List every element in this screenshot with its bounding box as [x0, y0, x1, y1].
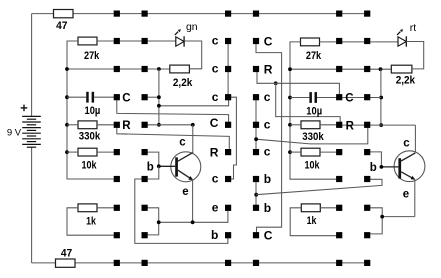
resistor R2 27k (left) [78, 37, 99, 62]
resistor R5 10k (left) [78, 148, 97, 171]
wire b-line left: c2r7 to c3r9 [135, 179, 228, 243]
svg-text:10µ: 10µ [85, 105, 101, 117]
wire bottom rail [32, 262, 371, 264]
svg-text:R: R [346, 120, 355, 132]
svg-text:c: c [179, 136, 186, 148]
svg-text:b: b [264, 201, 271, 215]
svg-text:1k: 1k [86, 215, 96, 227]
svg-text:rt: rt [410, 22, 416, 34]
wire 1k right leads + lower loop [290, 208, 339, 236]
svg-text:27k: 27k [84, 50, 99, 62]
wire R-route right: c4r3 to C c5r4 [257, 69, 339, 97]
junction base Q1 [157, 164, 161, 168]
wire 330k leads [67, 124, 117, 126]
wire c4r7-c4r8 b vertical [255, 179, 257, 208]
svg-text:47: 47 [56, 20, 67, 32]
svg-text:R: R [264, 62, 273, 76]
junction right bus row6 [288, 150, 292, 154]
svg-text:C: C [122, 92, 130, 104]
transistor Q1 (left) [147, 136, 201, 198]
LED D2 rt (red) [397, 22, 416, 47]
wire c-bypass c3r4 to c3r7 [228, 97, 236, 179]
wire 330k right leads [290, 124, 339, 126]
svg-text:27k: 27k [306, 50, 321, 62]
wire b-line right: c4 to c6r7 [256, 179, 382, 194]
svg-text:c: c [264, 90, 271, 104]
wire c6r6 to base Q2 [367, 152, 381, 167]
wire 27k-right-lead / right bus vertical x290 [290, 42, 339, 179]
svg-text:10µ: 10µ [306, 106, 322, 118]
wire R-branch: to 330k row c5r5 [276, 83, 341, 122]
wire collector vertical Q2 [414, 125, 416, 152]
wire top rail [32, 13, 371, 15]
wire row2 right: 27k to LED anode [320, 41, 399, 43]
resistor R11 1k (right) [301, 204, 320, 227]
resistor R3 2,2k (left) [170, 65, 193, 89]
junction left bus row6 [65, 150, 69, 154]
svg-text:c: c [212, 34, 219, 48]
resistor R10 10k (right) [301, 148, 320, 171]
wire node vertical x381 (2.2k junction down) [380, 69, 382, 125]
resistor R6 1k (left) [78, 204, 97, 228]
node letters left of column c3 [210, 34, 219, 243]
svg-text:c: c [212, 62, 219, 76]
svg-text:b: b [147, 161, 154, 173]
junction x159 y124.8 [157, 123, 161, 127]
contact dots column c6 [364, 11, 370, 267]
resistor R8 2,2k (right) [391, 65, 415, 86]
wire e-loop left (c2r8-c2r9) [145, 208, 159, 235]
svg-text:c: c [403, 137, 410, 149]
svg-text:C: C [210, 116, 219, 130]
LED D1 gn (green) [175, 21, 198, 47]
junction x381 row5 [379, 123, 383, 127]
wire 1k leads + lower loop [67, 208, 117, 235]
wire node-R route c1r5 to c3r6 [117, 125, 230, 152]
junction b-line right tap [254, 193, 258, 197]
wire emitter line right [382, 180, 415, 217]
junction x159 row4 [157, 95, 161, 99]
svg-text:e: e [212, 200, 219, 214]
svg-text:330k: 330k [302, 131, 324, 143]
junction c-diag tap [254, 137, 258, 141]
resistor R9 330k (right) [301, 121, 324, 143]
wire c-diag: c4 column to c6r5 [256, 125, 368, 144]
junction base Q2 [380, 165, 384, 169]
wire c3 collector column vertical rows2-4 [227, 41, 229, 97]
svg-text:C: C [345, 93, 353, 105]
svg-text:c: c [264, 117, 271, 131]
wire 10k leads [67, 151, 117, 153]
junction collector tap [191, 123, 195, 127]
wire c2-row4 stub [145, 96, 159, 98]
wire row3 right: bus to 2.2k [290, 68, 391, 70]
svg-text:9 V: 9 V [7, 127, 22, 138]
wire c4 collector column vertical rows4-6 [255, 97, 257, 152]
capacitor C2 10u (right) [290, 92, 339, 117]
junction R-route branch [274, 81, 278, 85]
wire node vertical x159 (2.2k junction down) [158, 69, 160, 125]
wire row3 left: bus to 2.2k [67, 68, 170, 70]
junction 2.2k left lead [157, 67, 161, 71]
junction right bus row3 [288, 67, 292, 71]
svg-text:b: b [264, 172, 271, 186]
transistor Q2 (right) [370, 137, 425, 200]
contact dots column c4 [253, 11, 259, 267]
wire emitter line left [159, 179, 228, 222]
svg-text:1k: 1k [307, 215, 317, 227]
junction x381 row4 [379, 96, 383, 100]
wire LED cathode to 2.2k right lead [184, 41, 202, 69]
svg-text:c: c [264, 145, 271, 159]
wire node y124.8: c2r5 to collector tap [145, 124, 193, 126]
resistor R7 27k (right) [301, 38, 322, 62]
wire row4 right: c5 to x381 [339, 97, 381, 99]
node letters right of column c4 [264, 34, 273, 242]
battery 9V [7, 14, 41, 263]
wire e-loop right (c6r8-c6r9) [367, 208, 382, 234]
svg-text:b: b [370, 162, 377, 174]
svg-text:330k: 330k [79, 131, 101, 143]
junction x159 y105.8 [157, 104, 161, 108]
svg-text:2,2k: 2,2k [173, 77, 192, 89]
svg-text:10k: 10k [82, 159, 97, 171]
contact dots column c2 [142, 11, 148, 267]
svg-text:c: c [212, 172, 219, 186]
svg-text:c: c [212, 90, 219, 104]
junction e-loop right tap [380, 215, 384, 219]
junction right bus row5 [288, 123, 292, 127]
wire row2 left: 27k to LED anode [97, 40, 176, 42]
svg-text:10k: 10k [305, 159, 320, 171]
wire collector vertical Q1 [192, 125, 194, 153]
junction emitter tap [191, 220, 195, 224]
junction left bus row4 [65, 95, 69, 99]
svg-text:R: R [122, 120, 131, 132]
svg-text:C: C [264, 229, 273, 243]
wire C-route right: c4r2 down long vertical to c4r9 [256, 41, 282, 235]
wire base elbow bottom (c2r7) [145, 166, 159, 179]
junction e-loop tap [157, 220, 161, 224]
svg-text:R: R [210, 146, 219, 160]
svg-text:e: e [182, 186, 188, 198]
wire 27k-left-lead / left bus vertical x67 [67, 41, 117, 179]
capacitor C1 10u (left) [67, 92, 117, 117]
contact dots column c1 [114, 11, 120, 267]
wire node-C route c1r4 to c3r5 [117, 97, 229, 125]
svg-text:47: 47 [61, 247, 72, 259]
junction right bus row4 [288, 96, 292, 100]
contact dots column c3 [225, 11, 231, 267]
resistor R4 330k (left) [78, 121, 100, 143]
junction 2.2k-right left lead [379, 67, 383, 71]
wire x159 to c3-row4 dot [159, 97, 229, 106]
svg-text:gn: gn [186, 21, 198, 33]
contact dots column c5 [336, 11, 342, 267]
junction left bus row3 [65, 67, 69, 71]
wire 10k right leads [290, 151, 339, 153]
wire row5 right: c5 to collector [339, 124, 415, 126]
wire base elbow top (c2r6) [145, 152, 159, 166]
svg-text:C: C [264, 34, 273, 48]
svg-text:e: e [403, 188, 409, 200]
wire LED cathode to 2.2k right lead [406, 42, 423, 69]
junction left bus row5 [65, 123, 69, 127]
svg-text:b: b [211, 228, 218, 242]
resistor R14 47 (bottom) [56, 247, 76, 267]
resistor R1 47 (top) [54, 10, 74, 32]
svg-text:2,2k: 2,2k [396, 74, 415, 86]
